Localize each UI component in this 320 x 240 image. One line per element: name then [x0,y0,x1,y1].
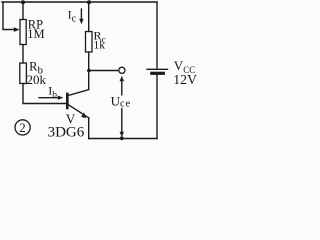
wire collector to output terminal [89,70,119,72]
resistor Rb body [20,63,27,84]
wire top rail [2,1,157,3]
transistor emitter stroke with arrow [69,105,89,118]
wire emitter down to bottom rail [88,118,90,139]
voltage arrow Uce upper part (head up) [121,80,123,95]
transistor collector stroke [69,90,89,96]
potentiometer wiper arrow into RP [14,27,20,32]
junction node dot on top rail above Rc [87,0,91,4]
svg-text:1k: 1k [94,39,106,51]
wire right rail upper [156,2,158,68]
wire left rail (RP wiper feedback) [3,2,14,30]
current arrow Ib [39,97,59,99]
wire top rail to RP [22,2,24,20]
voltage arrow Uce lower part (head down) [121,109,123,133]
current arrow Ic [80,9,82,20]
resistor Rc body [86,32,93,53]
resistor RP body [20,20,26,45]
junction node dot on bottom rail at Uce arrow [120,136,124,140]
battery Vcc negative plate (short thick) [152,72,164,75]
battery Vcc positive plate (long) [147,68,168,70]
junction node dot on top rail above RP [21,0,25,4]
figure number circled 2 [15,120,30,135]
wire Rb to base [23,84,66,104]
svg-text:20k: 20k [27,72,47,87]
svg-text:2: 2 [19,121,25,135]
wire Rc to collector [88,52,90,90]
svg-text:12V: 12V [173,72,197,87]
wire RP to Rb [22,45,24,64]
svg-text:1M: 1M [27,27,44,41]
junction node dot at collector output branch [87,69,91,73]
svg-text:3DG6: 3DG6 [48,124,85,140]
wire bottom rail [89,138,157,140]
wire right rail lower [156,75,158,139]
wire top rail to Rc [88,2,90,32]
transistor V1 3DG6: base bar [66,94,69,108]
output terminal (open circle) [119,67,125,73]
